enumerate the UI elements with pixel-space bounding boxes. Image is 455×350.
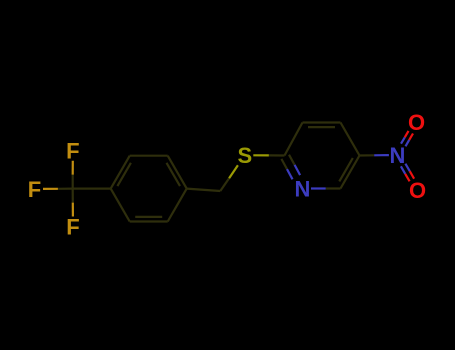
pyridine double bond C4=C3 xyxy=(303,123,341,128)
bond C7-F1 xyxy=(72,161,74,189)
bond C7-F2 xyxy=(43,188,73,190)
pyridine double bond C2=N1 xyxy=(281,155,300,180)
benzene double bond C3a=C4a xyxy=(167,156,187,189)
bond ring-CH2 xyxy=(187,189,221,191)
benzene bond C6a-C1 xyxy=(111,189,130,222)
bond C7-C1 CF3 to ring xyxy=(73,188,111,190)
pyridine double bond C6=C5 xyxy=(339,156,359,189)
benzene double bond C5a=C6a xyxy=(130,217,168,222)
nitro double bond N=O bottom xyxy=(401,164,414,182)
svg-text:N: N xyxy=(295,176,311,201)
nitro double bond N=O top xyxy=(401,131,413,146)
svg-text:F: F xyxy=(66,139,79,164)
svg-text:F: F xyxy=(28,177,41,202)
benzene bond C2a-C3a xyxy=(130,155,168,157)
svg-text:O: O xyxy=(408,110,425,135)
pyridine bond C5-C4 xyxy=(341,123,360,156)
svg-text:F: F xyxy=(66,214,79,239)
bond C7-F3 xyxy=(72,189,74,217)
bond C5-N nitro xyxy=(360,154,389,157)
svg-text:S: S xyxy=(237,143,252,168)
benzene double bond C1=C2a xyxy=(111,156,131,189)
bond S-C2py xyxy=(253,154,284,156)
benzene bond C4a-C5a xyxy=(168,189,187,222)
svg-text:N: N xyxy=(389,143,405,168)
bond CH2-S xyxy=(220,165,238,191)
svg-text:O: O xyxy=(409,178,426,203)
pyridine bond N1-C6 xyxy=(311,187,341,189)
pyridine bond C3-C2 xyxy=(285,123,303,156)
